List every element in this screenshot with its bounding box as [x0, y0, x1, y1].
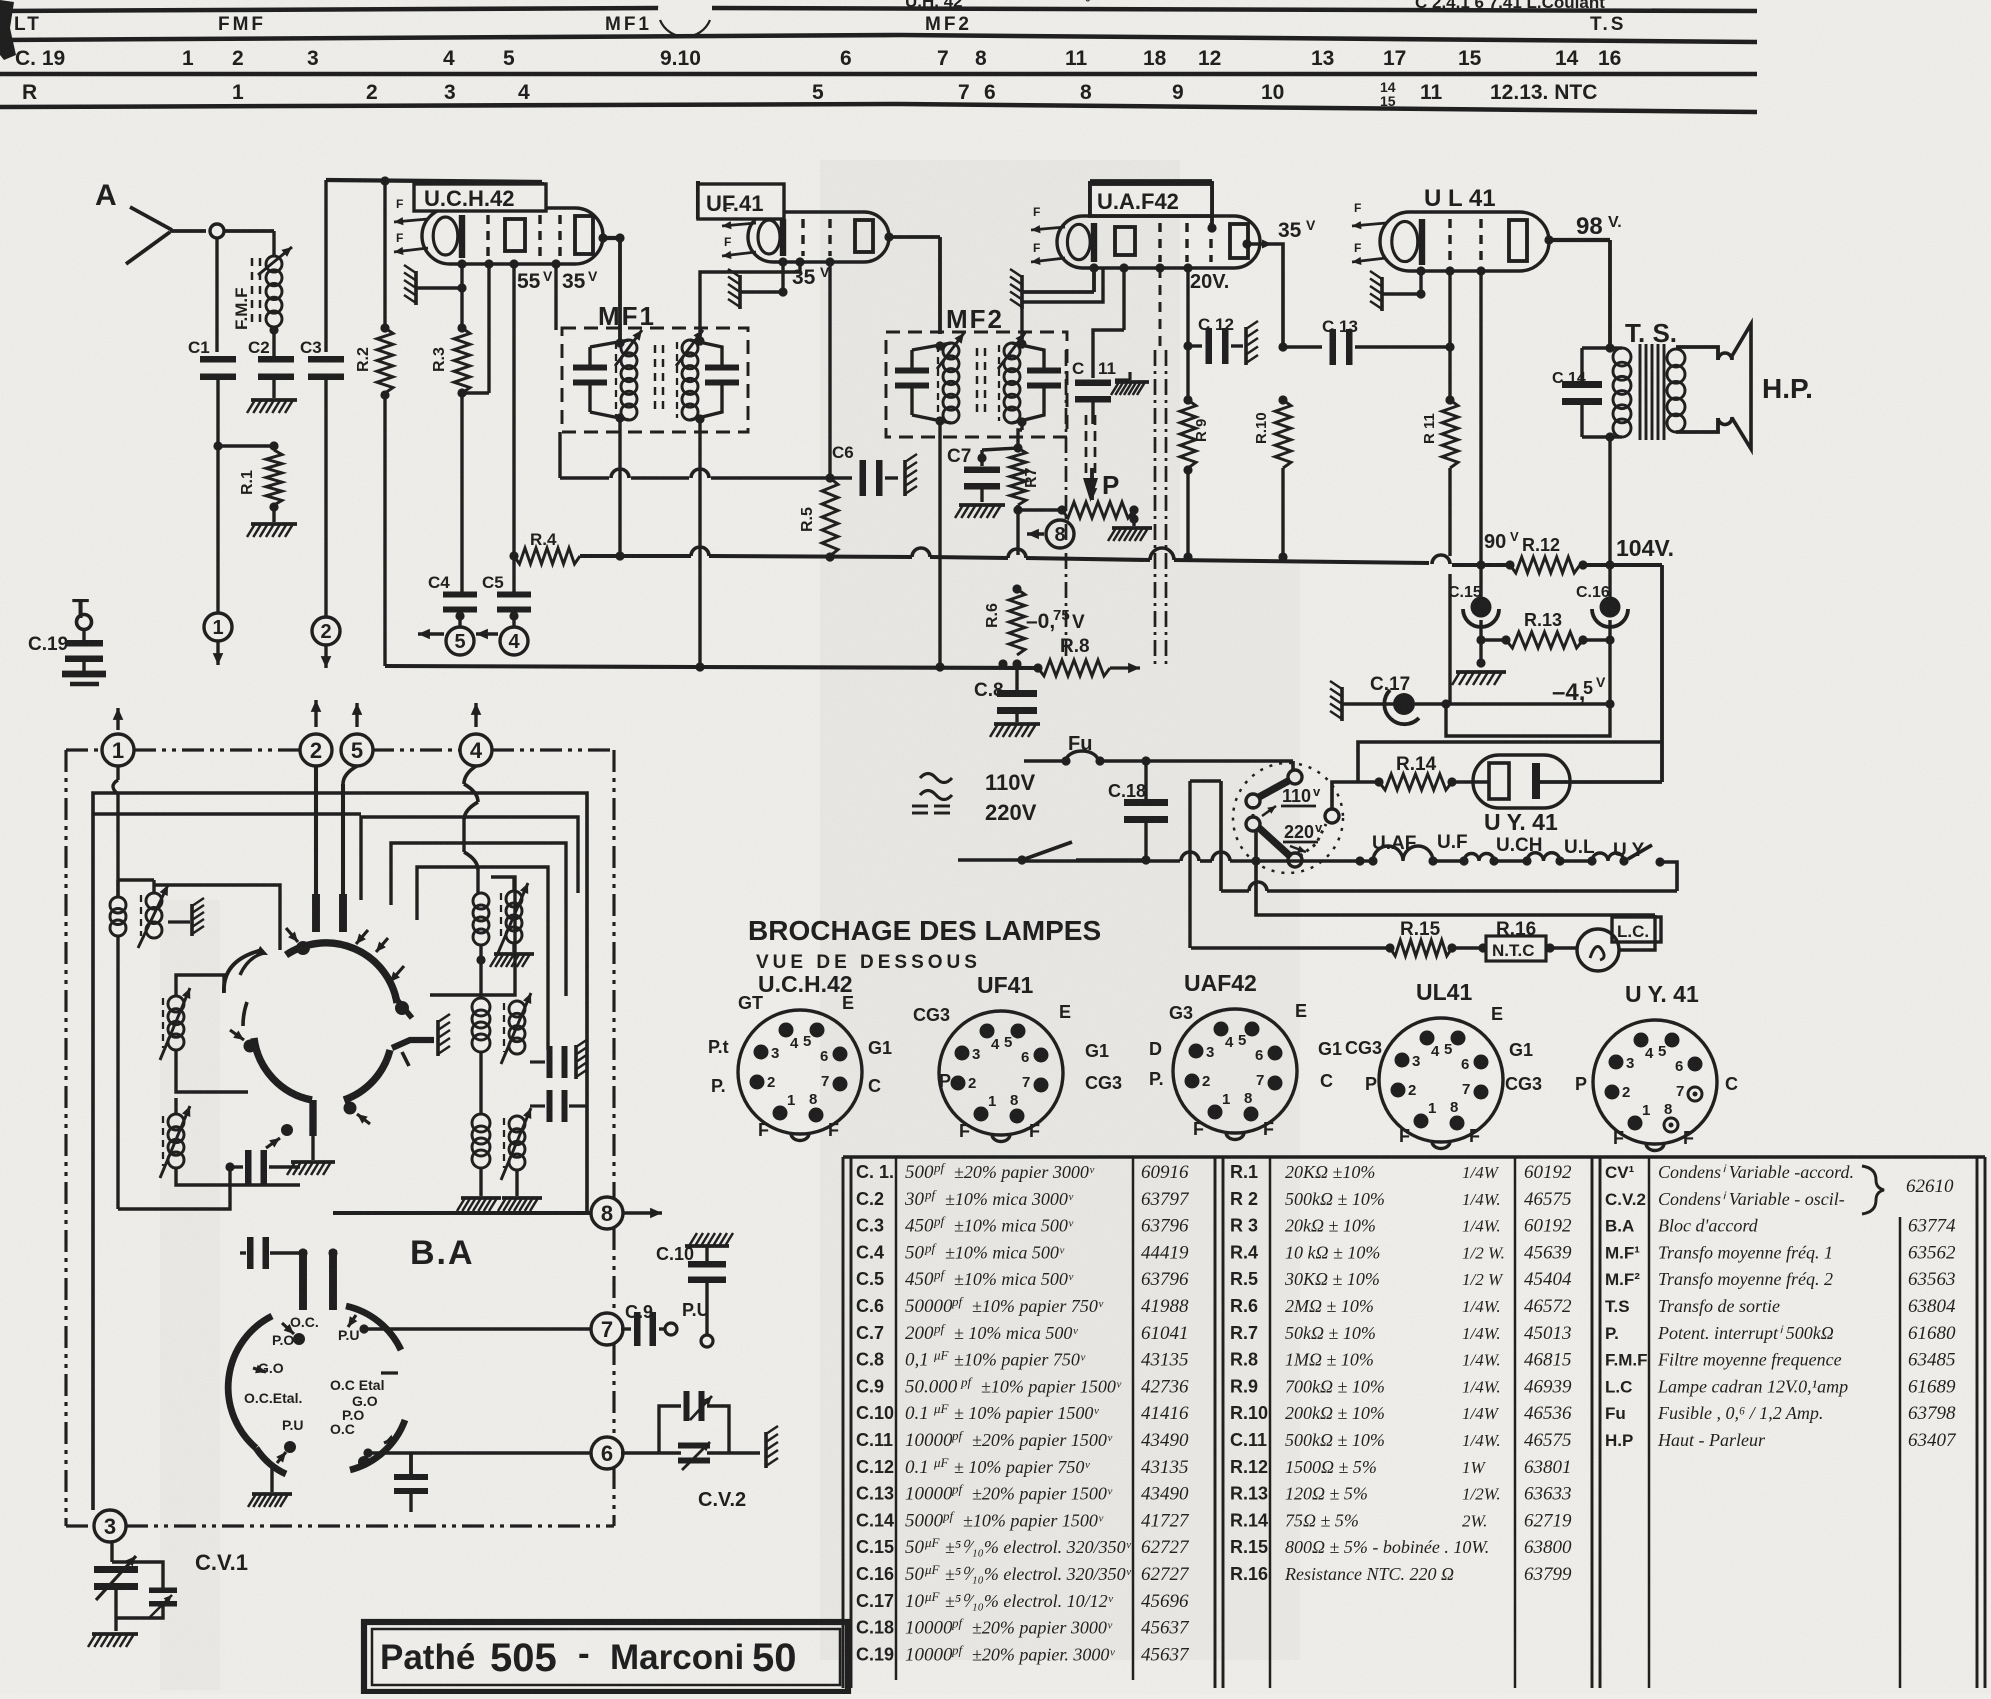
svg-text:Bloc d'accord: Bloc d'accord	[1658, 1216, 1759, 1236]
socket UY.41	[1575, 981, 1738, 1151]
terminal 1 on BA border	[102, 734, 134, 766]
BA lower rotor cap below right	[409, 1452, 413, 1474]
svg-text:G1: G1	[868, 1038, 892, 1058]
svg-text:8: 8	[1244, 1090, 1252, 1107]
wire MF2 primary down to bus667	[938, 421, 941, 667]
svg-text:8: 8	[809, 1091, 817, 1108]
svg-text:Potent. interruptⁱ 500kΩ: Potent. interruptⁱ 500kΩ	[1657, 1323, 1834, 1343]
svg-text:44419: 44419	[1141, 1242, 1189, 1263]
tube UF41	[748, 212, 889, 262]
svg-text:1/4W: 1/4W	[1462, 1404, 1500, 1423]
svg-text:0.1: 0.1	[905, 1457, 929, 1478]
BA wire to terminal 7	[364, 1327, 592, 1331]
svg-text:μF: μF	[924, 1589, 941, 1604]
svg-text:1: 1	[112, 738, 124, 763]
svg-text:O.C.: O.C.	[290, 1314, 319, 1330]
svg-text:O.C: O.C	[330, 1421, 355, 1437]
wire UF41 anode to MF2	[938, 237, 942, 334]
CV2 variable capacitor	[621, 1451, 659, 1454]
svg-text:0.1: 0.1	[905, 1403, 929, 1424]
MF1 dashed box	[562, 328, 748, 432]
wire C1 to junction	[216, 376, 219, 446]
svg-text:C.11: C.11	[1230, 1430, 1267, 1450]
svg-text:C.V.1: C.V.1	[195, 1550, 248, 1575]
svg-text:Fu: Fu	[1605, 1404, 1626, 1423]
capacitor C11	[1072, 359, 1116, 424]
dash-dot band around C11 and P	[1065, 350, 1068, 660]
svg-text:V: V	[588, 268, 598, 284]
svg-text:MF2: MF2	[946, 304, 1004, 334]
resistor R10	[1253, 395, 1291, 561]
svg-text:6: 6	[840, 47, 852, 70]
svg-text:1/2W.: 1/2W.	[1462, 1485, 1501, 1504]
svg-text:1: 1	[1222, 1091, 1230, 1108]
BA coil right-4	[472, 1114, 490, 1132]
svg-text:6: 6	[601, 1441, 613, 1466]
svg-text:63407: 63407	[1908, 1430, 1957, 1451]
svg-text:50: 50	[905, 1537, 925, 1558]
resistor R1	[239, 450, 282, 512]
top table horizontal rule 3	[0, 72, 1757, 77]
MF2 primary cap	[895, 368, 929, 374]
BA lower rotor contact arrows	[282, 1323, 294, 1334]
svg-text:±10% papier 1500ᵛ: ±10% papier 1500ᵛ	[981, 1376, 1122, 1396]
resistor R16 NTC box	[1478, 919, 1576, 961]
BA heavy line to terminal 8	[333, 1211, 592, 1215]
terminal 3 on BA border	[94, 1510, 126, 1542]
svg-text:11: 11	[1065, 47, 1088, 70]
svg-text:6: 6	[1021, 1049, 1029, 1066]
svg-text:C.8: C.8	[856, 1350, 884, 1370]
UF41 anode lead	[884, 232, 893, 241]
socket UF41	[913, 972, 1122, 1142]
MF2 dashed box	[886, 332, 1067, 437]
svg-text:43490: 43490	[1141, 1484, 1189, 1505]
svg-text:1: 1	[988, 1093, 996, 1110]
svg-text:F: F	[1263, 1119, 1274, 1139]
tube U.C.H.42	[422, 208, 603, 264]
UCH42 triode grid lead down	[551, 259, 560, 268]
BA wire rotor to right coils	[430, 1042, 463, 1085]
svg-text:1: 1	[182, 47, 194, 70]
svg-text:4: 4	[790, 1035, 799, 1052]
BA dash-dot border bottom	[66, 1524, 95, 1527]
svg-text:U.F: U.F	[1437, 832, 1468, 853]
svg-text:6: 6	[1255, 1047, 1263, 1064]
svg-text:F: F	[828, 1120, 839, 1140]
label box U.C.H.42	[414, 184, 546, 211]
svg-text:R.16: R.16	[1230, 1564, 1268, 1584]
svg-text:C.V.2: C.V.2	[698, 1489, 746, 1511]
label box UF41	[698, 184, 784, 219]
svg-text:1/4W.: 1/4W.	[1462, 1190, 1501, 1209]
top line over UY41	[1358, 742, 1662, 782]
svg-text:500kΩ ± 10%: 500kΩ ± 10%	[1285, 1430, 1385, 1450]
svg-text:Haut - Parleur: Haut - Parleur	[1657, 1430, 1766, 1450]
svg-text:C.17: C.17	[856, 1591, 894, 1611]
svg-text:10000: 10000	[905, 1484, 953, 1505]
svg-text:C 13: C 13	[1322, 317, 1358, 336]
svg-text:1W: 1W	[1462, 1458, 1487, 1477]
MF2 secondary coil	[1004, 343, 1020, 359]
BA ground left top	[168, 920, 190, 923]
terminal T with C19	[28, 593, 106, 684]
svg-text:R.8: R.8	[1230, 1350, 1258, 1370]
UL41 screen lead down to bus	[1476, 266, 1485, 275]
svg-text:U Y. 41: U Y. 41	[1625, 981, 1699, 1007]
svg-text:1/4W.: 1/4W.	[1462, 1217, 1501, 1236]
svg-text:R.13: R.13	[1524, 610, 1562, 630]
svg-text:45404: 45404	[1524, 1269, 1572, 1290]
svg-text:46939: 46939	[1524, 1376, 1572, 1397]
UL41 anode lead to 98V	[1544, 235, 1553, 244]
svg-text:1: 1	[212, 617, 223, 639]
svg-text:V.: V.	[1608, 214, 1622, 231]
svg-text:BROCHAGE DES LAMPES: BROCHAGE DES LAMPES	[748, 915, 1101, 946]
svg-text:9: 9	[1172, 81, 1184, 104]
svg-text:±20% papier 3000ᵛ: ±20% papier 3000ᵛ	[972, 1618, 1113, 1638]
table row 3 (R numbers)	[22, 79, 1597, 109]
svg-text:R.10: R.10	[1253, 412, 1270, 444]
svg-text:1/4W: 1/4W	[1462, 1163, 1500, 1182]
svg-text:R.2: R.2	[355, 347, 372, 372]
wire C16 to -45V line	[1608, 640, 1611, 704]
resistor R13	[1481, 610, 1615, 648]
capacitor C5	[482, 556, 531, 613]
svg-text:35: 35	[562, 270, 586, 293]
svg-text:2: 2	[232, 47, 244, 70]
svg-text:F: F	[1033, 241, 1040, 255]
svg-text:G.O: G.O	[258, 1360, 284, 1376]
svg-text:63562: 63562	[1908, 1242, 1956, 1263]
svg-text:1500Ω ± 5%: 1500Ω ± 5%	[1285, 1457, 1377, 1477]
BA cap lower-left	[225, 1162, 234, 1171]
svg-text:± 10% mica 500ᵛ: ± 10% mica 500ᵛ	[954, 1323, 1078, 1343]
svg-text:10000: 10000	[905, 1430, 953, 1451]
capacitor C2	[248, 330, 294, 380]
loop below -45V line	[1446, 704, 1610, 736]
UY41 cathode line to 104V	[1540, 780, 1662, 784]
resistor R4	[509, 530, 624, 564]
svg-text:P.O: P.O	[272, 1332, 294, 1348]
svg-text:50: 50	[752, 1636, 797, 1680]
svg-text:1: 1	[1428, 1100, 1436, 1117]
BA adj coil lower-left	[168, 1114, 184, 1130]
svg-text:VUE DE DESSOUS: VUE DE DESSOUS	[756, 952, 981, 973]
svg-text:50000: 50000	[905, 1296, 953, 1317]
svg-text:45696: 45696	[1141, 1591, 1189, 1612]
svg-text:±10% mica 3000ᵛ: ±10% mica 3000ᵛ	[945, 1189, 1074, 1209]
ground right of CV2	[764, 1432, 768, 1468]
pilot lamp feed down	[1190, 779, 1221, 783]
svg-text:R.5: R.5	[799, 507, 816, 532]
svg-text:C.19: C.19	[856, 1644, 894, 1664]
svg-text:T. S.: T. S.	[1625, 318, 1677, 348]
UL41 grid lead down through C13 node	[1445, 266, 1454, 275]
wire MF2 secondary bottom to R7	[1020, 422, 1023, 430]
svg-text:62719: 62719	[1524, 1510, 1572, 1531]
svg-text:M.F¹: M.F¹	[1605, 1243, 1640, 1262]
svg-text:v: v	[1315, 820, 1323, 835]
MF1 primary bottom wire	[590, 412, 629, 420]
BA lower rotor heavy feeds	[299, 1250, 307, 1310]
filament arrows UAF42	[1031, 205, 1065, 265]
TS primary top node	[1605, 343, 1614, 352]
Pathe 505 Marconi 50 label box	[364, 1622, 848, 1692]
svg-text:C: C	[1725, 1074, 1738, 1094]
table row 2 (C numbers)	[10, 47, 1621, 70]
UCH42 anode lead	[598, 233, 607, 242]
svg-text:11: 11	[1098, 359, 1116, 378]
terminal 2 circled	[312, 617, 340, 645]
capacitor C8	[974, 664, 1040, 737]
svg-text:P.: P.	[1605, 1324, 1619, 1343]
UCH42 cathode lead down	[457, 259, 466, 268]
svg-text:L.C.: L.C.	[1617, 922, 1649, 941]
BA dash-dot border top	[66, 748, 103, 751]
svg-text:41988: 41988	[1141, 1296, 1189, 1317]
ground right of C11	[1115, 378, 1130, 381]
filament arrows UCH42	[394, 197, 428, 255]
svg-text:P.: P.	[711, 1076, 726, 1096]
svg-text:V: V	[1072, 612, 1085, 633]
svg-text:C.13: C.13	[856, 1484, 894, 1504]
svg-text:F: F	[1469, 1126, 1480, 1146]
svg-text:1: 1	[232, 81, 244, 104]
BA dashed arm right	[402, 1052, 409, 1066]
MF1 primary coil	[621, 340, 637, 356]
svg-text:4: 4	[1645, 1045, 1654, 1062]
svg-text:R.4: R.4	[530, 530, 557, 549]
svg-text:10: 10	[905, 1591, 925, 1612]
svg-text:12.13. NTC: 12.13. NTC	[1490, 81, 1597, 104]
svg-text:R 2: R 2	[1230, 1189, 1258, 1209]
svg-text:MF2: MF2	[925, 14, 972, 35]
svg-text:μF: μF	[924, 1535, 941, 1550]
svg-text:2: 2	[320, 621, 331, 643]
svg-text:P.U: P.U	[282, 1417, 304, 1433]
terminal 7 on BA border	[591, 1313, 623, 1345]
UAF42 screen lead down	[1183, 263, 1192, 272]
svg-text:1: 1	[1642, 1102, 1650, 1119]
svg-text:50: 50	[905, 1564, 925, 1585]
svg-text:U.L: U.L	[1564, 837, 1595, 858]
svg-text:6: 6	[1461, 1056, 1469, 1073]
ground left of UCH42 cathode	[414, 271, 418, 305]
UF41 grid lead (from MF1)	[795, 257, 804, 266]
potentiometer P	[1062, 468, 1152, 541]
svg-text:C.11: C.11	[856, 1430, 893, 1450]
svg-text:75Ω ± 5%: 75Ω ± 5%	[1285, 1510, 1359, 1530]
svg-text:5: 5	[812, 81, 824, 104]
BA coil group left (L1)	[116, 880, 119, 897]
svg-text:G1: G1	[1318, 1039, 1342, 1059]
svg-text:N.T.C: N.T.C	[1492, 941, 1535, 960]
wire top bus to UCH42	[326, 180, 542, 182]
svg-text:8: 8	[1450, 1099, 1458, 1116]
svg-text:E: E	[1295, 1001, 1307, 1021]
svg-text:13: 13	[1311, 47, 1334, 70]
scan edge blob top-left	[0, 0, 16, 60]
svg-text:45639: 45639	[1524, 1242, 1572, 1263]
svg-text:F: F	[1354, 241, 1361, 255]
terminal 2 on BA border	[300, 734, 332, 766]
svg-text:D: D	[1149, 1039, 1162, 1059]
svg-text:41416: 41416	[1141, 1403, 1189, 1424]
svg-text:104V.: 104V.	[1616, 535, 1674, 561]
resistor R14	[1358, 754, 1489, 790]
svg-text:C.18: C.18	[856, 1618, 894, 1638]
svg-text:200: 200	[905, 1323, 934, 1344]
-45V line	[1415, 702, 1610, 705]
resistor R6	[984, 584, 1025, 668]
svg-text:6: 6	[1675, 1058, 1683, 1075]
svg-text:60916: 60916	[1141, 1162, 1189, 1183]
svg-text:T.S: T.S	[1605, 1297, 1630, 1316]
svg-text:1/4W.: 1/4W.	[1462, 1377, 1501, 1396]
svg-text:R.4: R.4	[1230, 1242, 1258, 1262]
capacitor C6	[832, 443, 898, 496]
BA adj coil right-4	[509, 1116, 525, 1132]
svg-text:6: 6	[820, 1048, 828, 1065]
dial lamp L.C	[1577, 929, 1619, 971]
svg-text:±⁵⁰⁄₁₀% electrol. 320/350ᵛ: ±⁵⁰⁄₁₀% electrol. 320/350ᵛ	[945, 1564, 1132, 1584]
svg-text:±⁵⁰⁄₁₀% electrol. 320/350ᵛ: ±⁵⁰⁄₁₀% electrol. 320/350ᵛ	[945, 1537, 1132, 1557]
punch hole	[658, 0, 712, 37]
terminal 1 circled	[204, 613, 232, 641]
svg-text:C.12: C.12	[856, 1457, 894, 1477]
svg-text:5000: 5000	[905, 1510, 944, 1531]
svg-text:Condensⁱ Variable - oscil-: Condensⁱ Variable - oscil-	[1658, 1189, 1845, 1209]
svg-text:35: 35	[792, 266, 816, 289]
svg-text:V: V	[543, 268, 553, 284]
ground under UF41	[738, 275, 742, 309]
MF2 secondary cap	[1027, 368, 1061, 374]
svg-text:800Ω ± 5% - bobinée . 10W.: 800Ω ± 5% - bobinée . 10W.	[1285, 1537, 1489, 1557]
MF1 primary top wire	[590, 340, 629, 347]
svg-text:3: 3	[1626, 1055, 1634, 1072]
svg-text:62727: 62727	[1141, 1564, 1190, 1585]
svg-text:±10% papier 750ᵛ: ±10% papier 750ᵛ	[972, 1296, 1104, 1316]
BA dash-dot border right	[612, 750, 615, 1199]
svg-text:±10% mica 500ᵛ: ±10% mica 500ᵛ	[954, 1269, 1074, 1289]
svg-text:200kΩ ± 10%: 200kΩ ± 10%	[1285, 1403, 1385, 1423]
svg-text:R.14: R.14	[1230, 1510, 1268, 1530]
parts table top border	[843, 1155, 1985, 1158]
svg-text:14: 14	[1555, 47, 1579, 70]
svg-text:43135: 43135	[1141, 1457, 1189, 1478]
MF2 primary coil	[943, 343, 959, 359]
CV1 variable capacitor	[94, 1566, 138, 1573]
svg-text:C.5: C.5	[856, 1269, 884, 1289]
svg-text:63804: 63804	[1908, 1296, 1956, 1317]
BA lower rotor ground left	[270, 1468, 273, 1492]
heater chain humps	[1355, 856, 1364, 865]
svg-text:± 10% papier 750ᵛ: ± 10% papier 750ᵛ	[954, 1457, 1090, 1477]
UAF42 cathode lead	[1089, 263, 1098, 272]
svg-text:1: 1	[787, 1092, 795, 1109]
svg-text:3: 3	[307, 47, 319, 70]
parts table outer verticals	[842, 1157, 845, 1688]
svg-text:63796: 63796	[1141, 1269, 1189, 1290]
svg-text:C.9: C.9	[856, 1376, 884, 1396]
tube UY.41	[1473, 755, 1570, 808]
selector blades	[1259, 780, 1290, 797]
wire MF1 primary down (to R4 node)	[618, 418, 621, 556]
TS secondary coil	[1667, 349, 1685, 367]
svg-text:B.A: B.A	[1605, 1217, 1634, 1236]
svg-text:v: v	[1313, 784, 1321, 799]
resistor R8	[1033, 636, 1140, 676]
svg-text:500kΩ ± 10%: 500kΩ ± 10%	[1285, 1189, 1385, 1209]
svg-text:5: 5	[351, 738, 363, 763]
svg-text:P.U: P.U	[338, 1327, 360, 1343]
svg-text:-: -	[578, 1634, 590, 1673]
resistor R5	[799, 478, 838, 562]
svg-text:±20% papier. 3000ᵛ: ±20% papier. 3000ᵛ	[972, 1644, 1115, 1664]
svg-text:6: 6	[984, 81, 996, 104]
wire MF1 secondary down to bus667	[698, 419, 701, 667]
heater return line 1	[1219, 781, 1223, 891]
ground below C15	[1479, 640, 1482, 663]
svg-text:C 2.4.1 6 7.41 L.Coul: C 2.4.1 6 7.41 L.Coulant	[1415, 0, 1605, 12]
terminal 5 circled with arrow	[458, 610, 461, 627]
UL41 cathode lead	[1416, 266, 1425, 275]
svg-text:V: V	[1596, 674, 1606, 690]
svg-text:50.000: 50.000	[905, 1376, 958, 1397]
svg-text:R.9: R.9	[1230, 1376, 1258, 1396]
UCH42 grid2 lead down	[484, 259, 493, 268]
resistor R3	[431, 288, 489, 398]
capacitor C15 electrolytic	[1448, 565, 1499, 645]
svg-text:R.14: R.14	[1396, 754, 1437, 775]
svg-text:9.10: 9.10	[660, 47, 701, 70]
BA wire to terminal 6	[368, 1451, 592, 1455]
svg-text:41727: 41727	[1141, 1510, 1190, 1531]
resistor R2	[355, 181, 393, 666]
FMF adjustable coil	[232, 231, 292, 335]
BA adj coil right-1	[506, 891, 522, 907]
svg-text:C5: C5	[482, 573, 504, 592]
svg-text:55: 55	[517, 270, 541, 293]
svg-text:5: 5	[1238, 1032, 1246, 1049]
svg-text:50kΩ ± 10%: 50kΩ ± 10%	[1285, 1323, 1376, 1343]
svg-text:CV¹: CV¹	[1605, 1163, 1635, 1182]
svg-text:F: F	[1033, 205, 1040, 219]
UAF42 grid3 lead	[1155, 263, 1164, 272]
svg-text:Transfo moyenne fréq. 1: Transfo moyenne fréq. 1	[1658, 1242, 1833, 1262]
svg-text:7: 7	[1256, 1072, 1264, 1089]
svg-text:°: °	[1085, 0, 1091, 10]
svg-text:7: 7	[1462, 1081, 1470, 1098]
svg-text:63798: 63798	[1908, 1403, 1956, 1424]
wire UCH42 anode to MF1	[618, 238, 622, 343]
svg-text:5: 5	[503, 47, 515, 70]
svg-text:MF1: MF1	[598, 301, 656, 331]
svg-text:505: 505	[490, 1636, 557, 1680]
svg-text:1/4W.: 1/4W.	[1462, 1297, 1501, 1316]
svg-text:R 11: R 11	[1421, 413, 1438, 444]
svg-text:C.2: C.2	[856, 1189, 884, 1209]
svg-text:46536: 46536	[1524, 1403, 1572, 1424]
bus AVC y=557 (B+ distribution)	[580, 554, 691, 558]
svg-text:G3: G3	[1169, 1003, 1193, 1023]
svg-text:C: C	[868, 1076, 881, 1096]
svg-text:63633: 63633	[1524, 1484, 1572, 1505]
svg-text:5: 5	[1658, 1043, 1666, 1060]
svg-text:R.15: R.15	[1230, 1537, 1268, 1557]
svg-text:R.8: R.8	[1060, 636, 1090, 657]
